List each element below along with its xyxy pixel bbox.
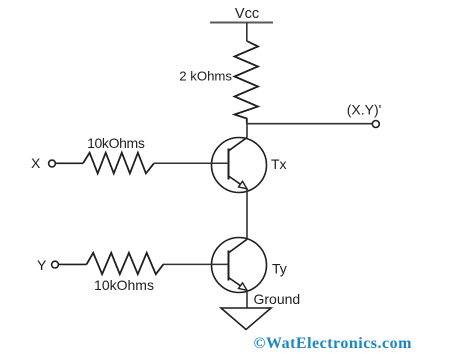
svg-text:Ty: Ty (272, 261, 287, 277)
svg-text:(X.Y)': (X.Y)' (347, 102, 382, 118)
svg-text:X: X (31, 155, 41, 171)
svg-text:Ground: Ground (254, 291, 301, 307)
svg-text:Vcc: Vcc (235, 6, 259, 22)
svg-text:Y: Y (37, 257, 47, 273)
svg-text:10kOhms: 10kOhms (94, 277, 154, 293)
svg-text:10kOhms: 10kOhms (87, 135, 145, 151)
svg-text:©WatElectronics.com: ©WatElectronics.com (254, 335, 413, 352)
svg-text:2 kOhms: 2 kOhms (179, 69, 232, 84)
svg-text:Tx: Tx (271, 156, 287, 172)
